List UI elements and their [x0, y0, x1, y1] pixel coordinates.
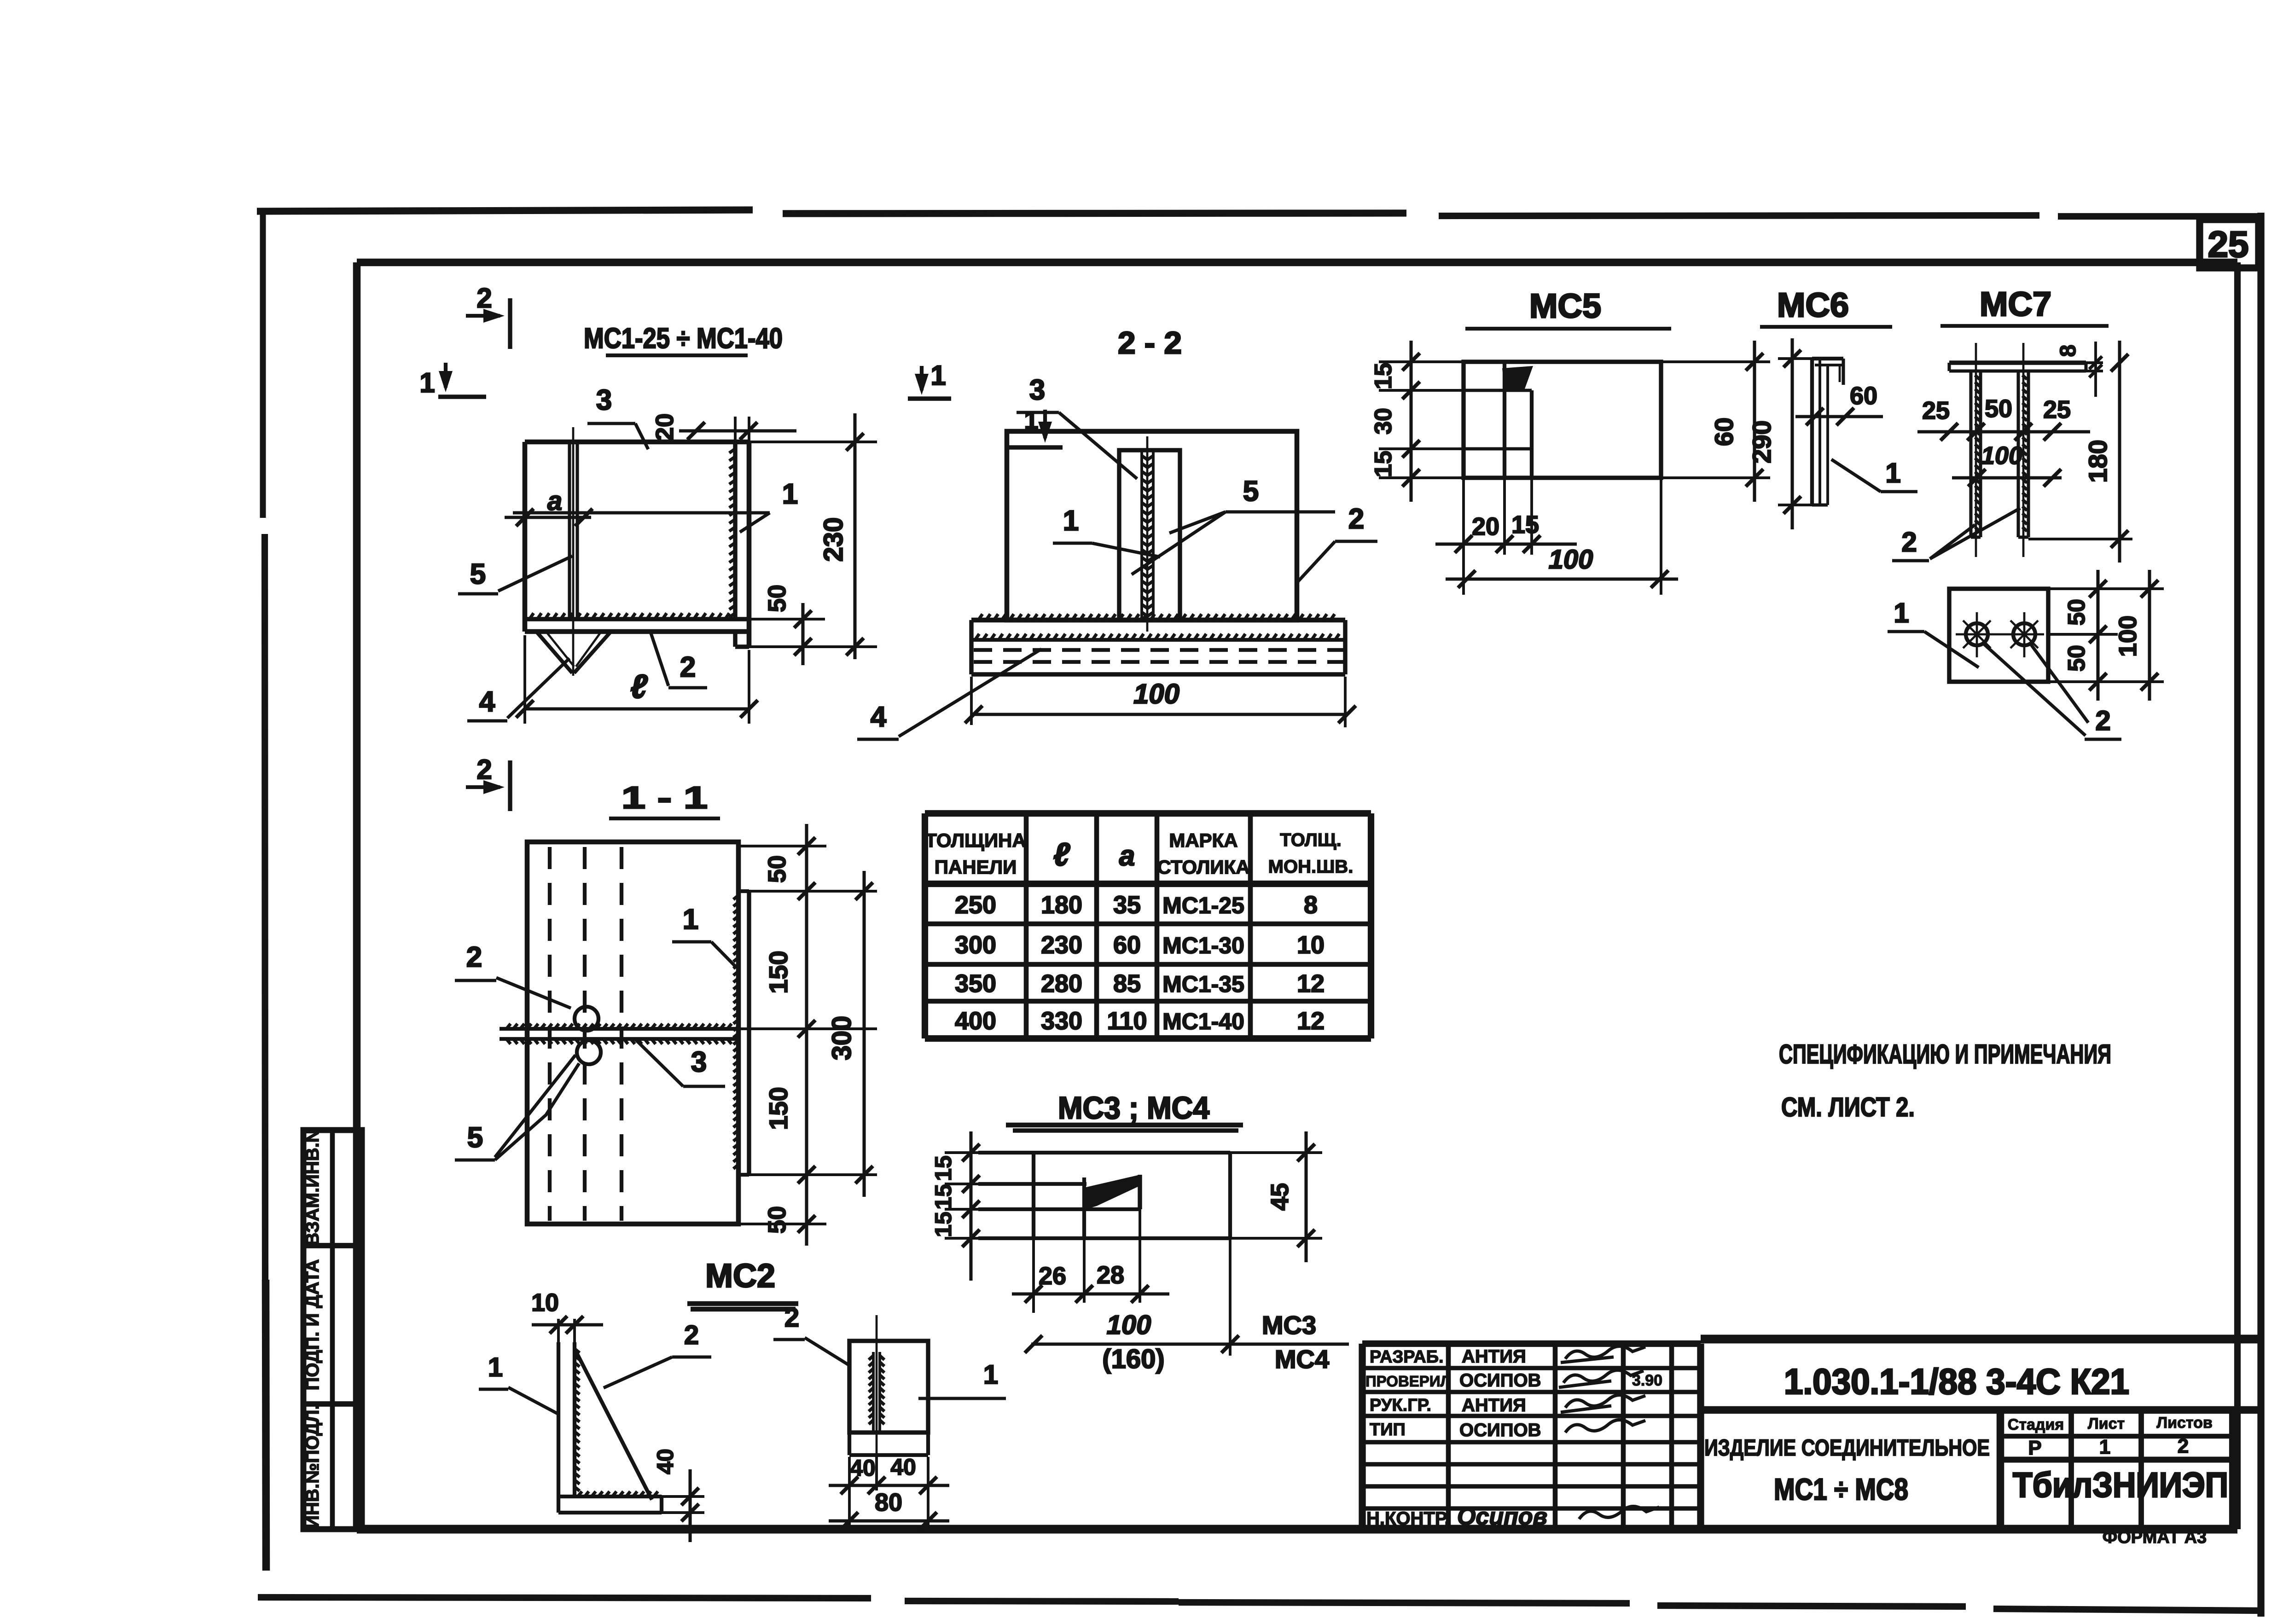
svg-text:20: 20: [1472, 513, 1499, 540]
svg-text:300: 300: [955, 931, 996, 959]
svg-text:1: 1: [983, 1360, 998, 1390]
svg-text:МС2: МС2: [705, 1258, 775, 1294]
svg-text:15: 15: [930, 1212, 956, 1237]
svg-text:4: 4: [871, 701, 887, 733]
svg-text:ИНВ.№ПОДЛ.: ИНВ.№ПОДЛ.: [302, 1404, 323, 1528]
svg-text:1: 1: [683, 904, 698, 935]
svg-text:330: 330: [1041, 1007, 1082, 1035]
svg-text:40: 40: [890, 1454, 916, 1480]
svg-text:20: 20: [651, 413, 679, 441]
svg-text:ТОЛЩ.: ТОЛЩ.: [1280, 830, 1342, 850]
svg-text:1: 1: [1063, 505, 1079, 537]
svg-text:15: 15: [930, 1155, 956, 1181]
svg-text:2: 2: [680, 651, 696, 683]
svg-text:60: 60: [1113, 931, 1141, 959]
svg-text:15: 15: [1370, 451, 1397, 477]
svg-text:60: 60: [1850, 382, 1877, 410]
svg-text:2: 2: [476, 754, 492, 785]
svg-text:a: a: [1119, 840, 1135, 872]
svg-text:50: 50: [2063, 599, 2090, 626]
svg-text:ПОДП. И ДАТА: ПОДП. И ДАТА: [302, 1259, 323, 1391]
svg-text:1: 1: [488, 1352, 503, 1382]
svg-text:АНТИЯ: АНТИЯ: [1462, 1395, 1526, 1415]
svg-text:Р: Р: [2028, 1437, 2041, 1459]
svg-text:МС1-25 ÷ МС1-40: МС1-25 ÷ МС1-40: [584, 323, 783, 354]
svg-text:Н.КОНТР.: Н.КОНТР.: [1366, 1508, 1450, 1529]
svg-text:ℓ: ℓ: [630, 668, 648, 705]
svg-text:ВЗАМ.ИНВ.N: ВЗАМ.ИНВ.N: [302, 1129, 323, 1246]
svg-text:МС3: МС3: [1262, 1311, 1316, 1340]
svg-text:2: 2: [1348, 503, 1364, 535]
svg-text:1.030.1-1/88 3-4С К21: 1.030.1-1/88 3-4С К21: [1784, 1361, 2129, 1402]
svg-text:40: 40: [652, 1449, 678, 1474]
svg-text:СПЕЦИФИКАЦИЮ И ПРИМЕЧАНИЯ: СПЕЦИФИКАЦИЮ И ПРИМЕЧАНИЯ: [1779, 1039, 2111, 1069]
svg-text:80: 80: [875, 1489, 902, 1516]
svg-text:15: 15: [1511, 511, 1539, 539]
svg-text:2: 2: [1901, 527, 1917, 557]
svg-text:СМ. ЛИСТ 2.: СМ. ЛИСТ 2.: [1781, 1092, 1915, 1122]
svg-text:Лист: Лист: [2088, 1415, 2125, 1433]
svg-text:4: 4: [479, 686, 495, 718]
svg-text:26: 26: [1039, 1262, 1066, 1290]
svg-text:1: 1: [419, 367, 435, 398]
svg-text:(160): (160): [1102, 1344, 1164, 1374]
svg-text:12: 12: [1297, 1007, 1325, 1035]
svg-text:25: 25: [2208, 224, 2249, 265]
svg-text:50: 50: [763, 1206, 791, 1234]
svg-text:МС5: МС5: [1529, 287, 1601, 325]
svg-text:100: 100: [1107, 1310, 1151, 1340]
svg-text:МОН.ШВ.: МОН.ШВ.: [1268, 857, 1354, 877]
svg-text:230: 230: [819, 517, 848, 562]
svg-text:РАЗРАБ.: РАЗРАБ.: [1370, 1347, 1444, 1367]
svg-text:280: 280: [1041, 970, 1082, 998]
svg-text:МС4: МС4: [1275, 1345, 1329, 1374]
svg-text:2: 2: [476, 283, 492, 313]
svg-text:Стадия: Стадия: [2008, 1416, 2064, 1433]
svg-text:ФОРМАТ А3: ФОРМАТ А3: [2103, 1528, 2207, 1547]
svg-text:ОСИПОВ: ОСИПОВ: [1459, 1370, 1541, 1391]
svg-text:100: 100: [1981, 442, 2022, 470]
svg-text:Осипов: Осипов: [1457, 1503, 1547, 1530]
svg-text:5: 5: [470, 558, 486, 590]
svg-text:МС1-30: МС1-30: [1162, 933, 1244, 958]
svg-text:ОСИПОВ: ОСИПОВ: [1459, 1420, 1541, 1440]
svg-text:ТИП: ТИП: [1370, 1420, 1406, 1439]
svg-text:50: 50: [2063, 645, 2090, 672]
svg-text:МАРКА: МАРКА: [1169, 829, 1237, 851]
svg-text:50: 50: [763, 585, 791, 612]
svg-text:1 - 1: 1 - 1: [622, 780, 708, 815]
svg-text:ТОЛЩИНА: ТОЛЩИНА: [925, 829, 1026, 851]
svg-text:МС1-40: МС1-40: [1162, 1009, 1244, 1034]
svg-text:400: 400: [955, 1007, 996, 1035]
svg-text:40: 40: [850, 1455, 876, 1481]
svg-text:10: 10: [1297, 931, 1325, 959]
svg-text:МС7: МС7: [1980, 285, 2051, 323]
svg-text:Листов: Листов: [2156, 1414, 2213, 1432]
svg-text:25: 25: [2043, 396, 2071, 423]
svg-text:250: 250: [955, 891, 996, 919]
svg-text:МС1-35: МС1-35: [1162, 971, 1244, 997]
svg-text:8: 8: [1304, 891, 1318, 919]
svg-text:10: 10: [531, 1289, 559, 1317]
svg-text:50: 50: [763, 855, 791, 883]
svg-text:ℓ: ℓ: [1053, 836, 1070, 872]
svg-text:АНТИЯ: АНТИЯ: [1462, 1346, 1526, 1367]
svg-text:5: 5: [1243, 476, 1259, 507]
svg-text:60: 60: [1709, 418, 1738, 446]
svg-text:1: 1: [1894, 597, 1909, 628]
svg-text:2: 2: [2095, 705, 2110, 736]
svg-text:12: 12: [1297, 970, 1325, 998]
svg-text:1: 1: [1885, 458, 1900, 488]
svg-text:2 - 2: 2 - 2: [1118, 325, 1182, 360]
svg-text:50: 50: [1985, 395, 2012, 423]
svg-text:25: 25: [1922, 397, 1950, 424]
svg-text:45: 45: [1266, 1183, 1294, 1211]
svg-text:ПРОВЕРИЛ: ПРОВЕРИЛ: [1365, 1373, 1451, 1390]
svg-text:290: 290: [1747, 420, 1776, 463]
svg-text:МС6: МС6: [1777, 286, 1849, 324]
svg-text:350: 350: [955, 970, 996, 998]
svg-text:100: 100: [1549, 545, 1593, 574]
svg-text:110: 110: [1107, 1007, 1147, 1035]
svg-text:15: 15: [930, 1184, 956, 1210]
svg-text:2: 2: [2178, 1435, 2189, 1457]
svg-text:2: 2: [684, 1320, 699, 1350]
svg-text:СТОЛИКА: СТОЛИКА: [1157, 856, 1249, 878]
svg-text:3: 3: [596, 384, 612, 416]
svg-text:28: 28: [1097, 1261, 1124, 1289]
svg-text:180: 180: [1041, 891, 1082, 919]
svg-text:ИЗДЕЛИЕ СОЕДИНИТЕЛЬНОЕ: ИЗДЕЛИЕ СОЕДИНИТЕЛЬНОЕ: [1704, 1435, 1990, 1461]
svg-text:ТбилЗНИИЭП: ТбилЗНИИЭП: [2013, 1466, 2228, 1505]
svg-text:230: 230: [1041, 931, 1082, 959]
svg-text:8: 8: [2056, 345, 2080, 357]
svg-text:180: 180: [2083, 440, 2112, 482]
svg-text:150: 150: [764, 1087, 793, 1130]
svg-text:2: 2: [784, 1303, 799, 1333]
svg-text:5: 5: [467, 1122, 483, 1154]
svg-text:35: 35: [1113, 891, 1141, 919]
svg-text:1: 1: [2099, 1436, 2110, 1458]
svg-text:100: 100: [1133, 679, 1179, 709]
svg-text:1: 1: [930, 360, 946, 391]
svg-text:МС1 ÷ МС8: МС1 ÷ МС8: [1774, 1472, 1908, 1506]
svg-text:2: 2: [466, 941, 482, 973]
svg-text:3: 3: [691, 1046, 707, 1078]
svg-text:30: 30: [1370, 408, 1397, 435]
svg-text:15: 15: [1370, 363, 1397, 389]
svg-text:РУК.ГР.: РУК.ГР.: [1370, 1396, 1431, 1415]
svg-text:МС1-25: МС1-25: [1162, 893, 1244, 918]
svg-text:ПАНЕЛИ: ПАНЕЛИ: [935, 856, 1017, 878]
svg-text:100: 100: [2114, 615, 2142, 657]
svg-text:МС3 ; МС4: МС3 ; МС4: [1058, 1090, 1209, 1125]
svg-text:85: 85: [1113, 970, 1141, 998]
svg-text:150: 150: [764, 951, 793, 993]
svg-text:300: 300: [827, 1016, 857, 1061]
svg-text:3: 3: [1029, 374, 1045, 406]
svg-text:1: 1: [782, 478, 798, 510]
